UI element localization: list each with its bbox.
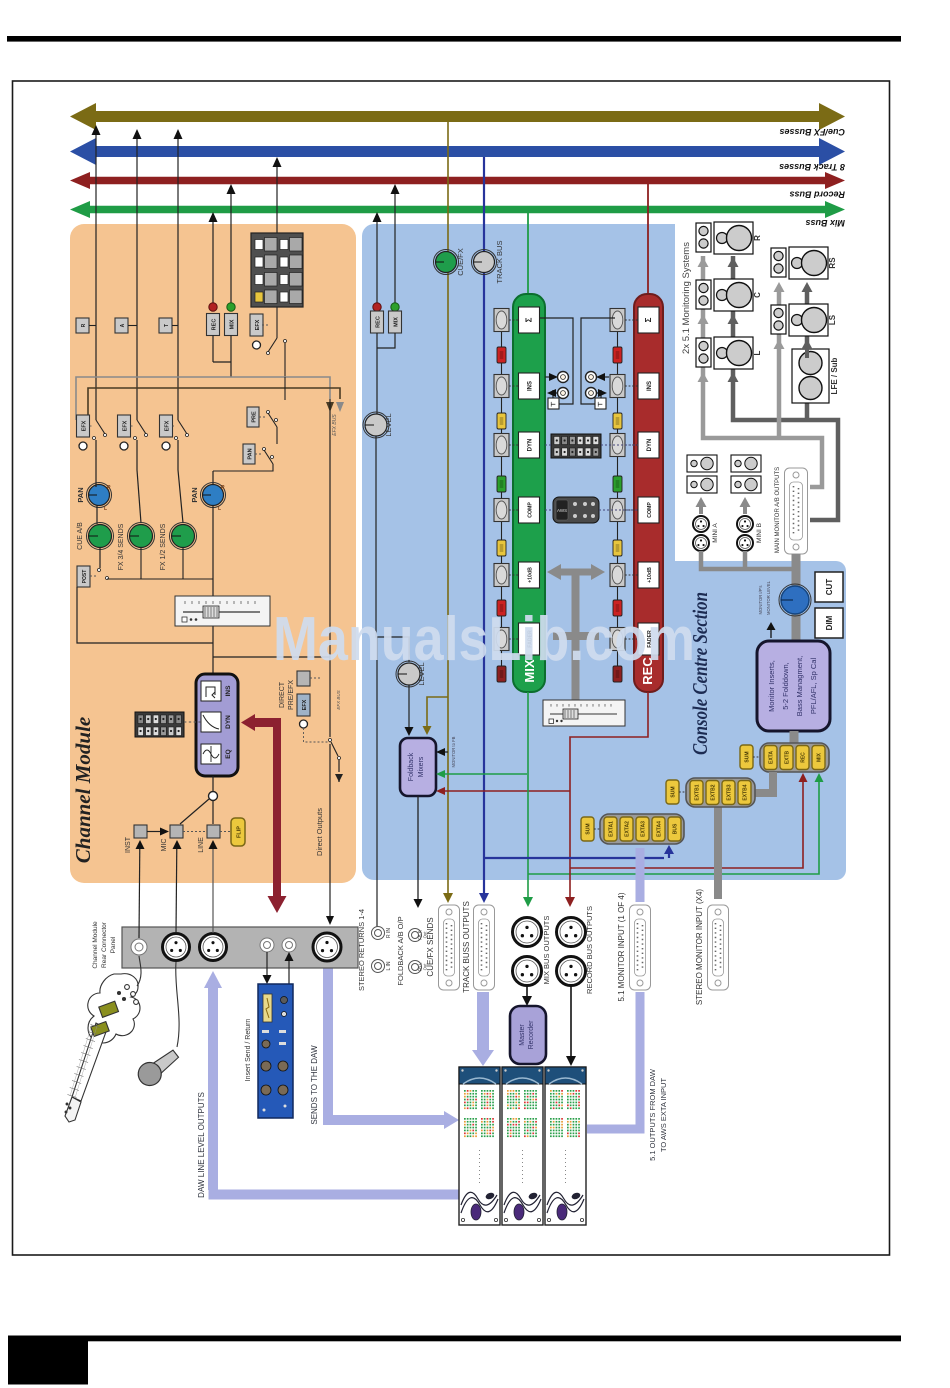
svg-text:STEREO MONITOR INPUT (X4): STEREO MONITOR INPUT (X4) — [695, 889, 704, 1005]
wire: channel output bus (pre) — [88, 388, 340, 430]
svg-text:+10dB: +10dB — [527, 567, 533, 583]
svg-text:L: L — [218, 506, 221, 512]
svg-text:INS: INS — [225, 685, 232, 697]
svg-text:CUE/FX: CUE/FX — [456, 248, 465, 276]
sends to the DAW cable — [328, 968, 448, 1120]
ext B select SUM — [666, 780, 679, 804]
Mix buss arrow — [70, 201, 845, 218]
mix to foldback green arrow — [443, 773, 527, 775]
mini speaker B boxes — [731, 455, 761, 472]
speaker L — [696, 338, 711, 367]
wire: cue send 1 tap to Cue/FX buss — [95, 135, 97, 420]
PAN knob (channel) — [201, 483, 226, 508]
speaker feed arrows col B — [777, 290, 781, 301]
svg-text:Recorder: Recorder — [528, 1020, 535, 1049]
svg-text:EXTB: EXTB — [785, 750, 791, 764]
wire: track routing matrix to 8 Track buss — [276, 167, 278, 233]
svg-text:DAW LINE LEVEL OUTPUTS: DAW LINE LEVEL OUTPUTS — [197, 1092, 206, 1198]
svg-text:A: A — [120, 323, 126, 327]
svg-text:COMP: COMP — [527, 502, 533, 518]
svg-text:DIRECT: DIRECT — [279, 681, 286, 708]
mini B feed arrow — [743, 505, 747, 514]
monitor source select group — [760, 743, 829, 772]
svg-text:PFL/AFL, Sp Cal: PFL/AFL, Sp Cal — [809, 658, 818, 715]
MIX buss strip — [527, 213, 529, 296]
wire: returns level chain — [377, 333, 395, 414]
svg-text:MONITOR LEVEL: MONITOR LEVEL — [766, 580, 771, 615]
svg-text:EXTB2: EXTB2 — [711, 784, 717, 800]
svg-text:PRE: PRE — [251, 411, 257, 423]
wire: cue chain — [95, 470, 97, 487]
mini A feed arrow — [699, 505, 703, 514]
record bus output XLR pair — [557, 918, 586, 947]
REC buss strip — [647, 184, 649, 296]
CUE/FX level knob — [434, 250, 459, 275]
8 Track busses arrow — [70, 138, 845, 165]
mix insert loop — [539, 318, 573, 404]
svg-text:DYN: DYN — [527, 439, 533, 452]
wire: surround speaker feed A — [777, 290, 782, 438]
svg-text:COMP: COMP — [647, 502, 653, 518]
wire: olive branch to foldback — [427, 697, 448, 727]
insert path red arrow — [241, 714, 287, 913]
svg-text:R: R — [753, 235, 762, 241]
wire: cue send 3 tap to Cue/FX buss — [177, 139, 179, 420]
svg-text:CUE A/B: CUE A/B — [77, 522, 84, 550]
monitor cross feed arrows — [547, 564, 605, 580]
svg-text:TRACK BUS: TRACK BUS — [495, 241, 504, 284]
svg-text:MONITOR I/P's: MONITOR I/P's — [758, 586, 763, 615]
wire: track buss to DB25 and BUS select — [484, 852, 669, 898]
speaker feed arrows col A — [701, 265, 705, 276]
svg-text:5.1 OUTPUTS FROM DAW: 5.1 OUTPUTS FROM DAW — [648, 1068, 657, 1161]
EQ DYN INS module U1 — [196, 674, 238, 776]
EFX send switch 2 — [118, 415, 131, 437]
ext A select group — [600, 814, 684, 844]
DAW interface units — [459, 1067, 500, 1225]
svg-text:DYN: DYN — [647, 439, 653, 452]
efx bus down arrows — [326, 402, 334, 412]
EFX send switch 1 — [77, 415, 90, 437]
wire: monitor speaker feed A (gray) — [703, 256, 822, 487]
mini speaker A boxes — [687, 455, 717, 472]
svg-text:R: R — [221, 485, 225, 491]
mini B XLR pair — [737, 516, 753, 532]
console centre panel — [362, 224, 846, 880]
option switch box 2 — [115, 318, 128, 333]
svg-text:+10dB: +10dB — [647, 567, 653, 583]
svg-text:PRE/EFX: PRE/EFX — [288, 680, 295, 710]
insert return jack — [282, 938, 296, 952]
svg-text:MIC: MIC — [161, 839, 168, 852]
PAN bypass switch — [243, 444, 255, 464]
ext B select group — [686, 778, 755, 807]
mic XLR — [163, 934, 190, 961]
svg-text:8 Track Busses: 8 Track Busses — [779, 162, 845, 172]
svg-text:RS: RS — [828, 257, 837, 269]
svg-text:Rear Connector: Rear Connector — [101, 921, 108, 968]
svg-text:REC: REC — [211, 319, 217, 331]
track buss outputs to DAW cable — [477, 992, 489, 1052]
svg-text:PAN: PAN — [76, 487, 85, 502]
svg-text:REC: REC — [375, 316, 381, 328]
wire: monitor select trunk — [790, 731, 799, 743]
speaker R — [696, 223, 711, 252]
speaker LFE/Sub — [792, 349, 829, 403]
speaker C — [696, 280, 711, 309]
rec insert loop — [581, 318, 615, 404]
svg-text:EFX: EFX — [81, 420, 87, 431]
svg-text:L IN: L IN — [386, 961, 392, 970]
svg-text:T: T — [164, 324, 170, 327]
ext A select SUM — [581, 817, 594, 841]
EFX direct switch — [297, 694, 310, 716]
wire: returns to foldback branch — [376, 436, 409, 662]
EFX switch box — [250, 314, 263, 336]
5.1 outputs from DAW cable — [587, 848, 640, 1129]
wire: channel output bus (post) — [76, 377, 330, 420]
DAW line level outputs cable — [209, 985, 460, 1195]
track buss outputs DB25 — [474, 905, 495, 990]
PRE switch — [247, 407, 259, 427]
wire: inputs up to INST/MIC/LINE — [138, 846, 141, 938]
wire: level to foldback — [408, 685, 410, 728]
svg-text:R: R — [81, 323, 87, 327]
PAN knob (cue) — [87, 483, 112, 508]
svg-text:L: L — [104, 506, 107, 512]
svg-text:MIX: MIX — [229, 319, 235, 329]
wire: fader feed — [77, 505, 330, 674]
CUE A/B level knob — [87, 523, 114, 550]
svg-text:Channel Module: Channel Module — [71, 717, 95, 863]
option switch box 1 — [76, 318, 89, 333]
Record buss arrow — [70, 172, 845, 189]
mic cable — [176, 962, 179, 1047]
guitar cable — [137, 956, 141, 986]
svg-text:PAN: PAN — [190, 487, 199, 502]
svg-text:SENDS TO THE DAW: SENDS TO THE DAW — [310, 1045, 319, 1125]
svg-text:Direct Outputs: Direct Outputs — [315, 808, 324, 856]
svg-text:R IN: R IN — [386, 928, 392, 938]
channel fader — [175, 596, 270, 626]
rec strip process boxes — [638, 307, 659, 333]
svg-text:MINI B: MINI B — [756, 523, 763, 543]
wire: foldback output — [417, 796, 419, 900]
master recorder — [510, 1006, 546, 1064]
bottom-left black tab — [8, 1336, 88, 1385]
svg-text:Channel Module: Channel Module — [92, 921, 99, 969]
svg-text:EFX: EFX — [122, 420, 128, 431]
monitor I/Ps arrow — [770, 628, 772, 638]
mix strip process boxes — [519, 307, 540, 333]
svg-text:PAN: PAN — [247, 448, 253, 459]
svg-text:SUM: SUM — [586, 823, 592, 834]
svg-text:LINE: LINE — [198, 837, 205, 853]
wire: record bus to DAW — [570, 986, 572, 1057]
svg-text:MAIN MONITOR A/B OUTPUTS: MAIN MONITOR A/B OUTPUTS — [775, 467, 781, 553]
wire: monitor speaker feed B (dark gray) — [733, 256, 838, 520]
EFX send switch 3 — [160, 415, 173, 437]
cue/fx sends DB25 — [439, 905, 460, 990]
svg-text:EXTA: EXTA — [769, 751, 775, 764]
svg-text:POST: POST — [82, 570, 88, 584]
monitor to FB arrow — [443, 751, 448, 753]
wire: routing to channel pan — [213, 377, 285, 471]
svg-text:FX 1/2 SENDS: FX 1/2 SENDS — [160, 523, 167, 570]
svg-text:EFX: EFX — [164, 420, 170, 431]
svg-text:LEVEL: LEVEL — [384, 413, 393, 436]
svg-text:LS: LS — [828, 314, 837, 325]
centre REC switch — [373, 303, 381, 311]
svg-text:R: R — [107, 485, 111, 491]
svg-text:Panel: Panel — [110, 936, 117, 953]
svg-text:L: L — [753, 350, 762, 355]
svg-text:EFX: EFX — [302, 699, 308, 710]
direct out XLR — [313, 933, 341, 961]
svg-text:2x 5.1 Monitoring Systems: 2x 5.1 Monitoring Systems — [681, 242, 692, 354]
LINE input box — [207, 825, 220, 838]
option switch box 3 — [159, 318, 172, 333]
switch: matrix/efx select — [276, 307, 278, 338]
Cue/FX busses arrow — [70, 103, 845, 130]
svg-text:INS: INS — [647, 381, 653, 391]
mix strip control column — [501, 320, 503, 681]
speaker RS — [771, 248, 786, 277]
svg-text:Σ: Σ — [524, 317, 533, 322]
centre fader — [543, 700, 625, 726]
FX 3/4 sends knob — [137, 470, 141, 523]
shared compressor icon — [553, 497, 599, 523]
svg-text:EXTA3: EXTA3 — [641, 821, 647, 837]
svg-text:Master: Master — [519, 1024, 526, 1046]
svg-text:SUM: SUM — [671, 786, 677, 797]
rec strip control column — [617, 320, 619, 681]
REC routing switch — [209, 303, 217, 311]
svg-text:Mix Buss: Mix Buss — [805, 218, 845, 228]
svg-text:DIM: DIM — [825, 615, 834, 630]
INST input box — [134, 825, 147, 838]
wire: main monitor trunk — [792, 554, 801, 641]
svg-text:EXTB4: EXTB4 — [743, 784, 749, 800]
svg-text:MIX: MIX — [817, 752, 823, 762]
svg-text:EFX BUS: EFX BUS — [336, 690, 341, 709]
inst to mic arrow — [147, 831, 161, 833]
speaker LS — [771, 305, 786, 334]
wire: cue send 2 tap to Cue/FX buss — [136, 139, 138, 420]
wire: select trunk down — [718, 772, 773, 899]
channel module panel — [70, 224, 356, 883]
svg-text:Σ: Σ — [644, 317, 653, 322]
svg-text:C: C — [753, 292, 762, 298]
svg-text:AWS: AWS — [557, 508, 567, 513]
guitar — [65, 974, 140, 1122]
input node switch — [209, 792, 218, 801]
wire: MIX switch to Record buss — [230, 194, 232, 311]
wire: 8-track buss feed (navy) — [483, 157, 485, 858]
stereo monitor input DB25 — [708, 905, 729, 990]
svg-text:EXTA4: EXTA4 — [657, 821, 663, 837]
MIX routing switch — [227, 303, 235, 311]
wire: REC switch to Mix buss — [212, 222, 214, 311]
shared dynamics panel icon — [551, 434, 601, 458]
svg-text:5.1 MONITOR INPUT (1 OF 4): 5.1 MONITOR INPUT (1 OF 4) — [617, 892, 626, 1001]
centre MIX switch — [391, 303, 399, 311]
svg-text:EQ: EQ — [225, 749, 232, 758]
svg-text:TO AWS EXTA INPUT: TO AWS EXTA INPUT — [659, 1078, 668, 1152]
bottom rule — [8, 1336, 901, 1342]
svg-text:EXTB1: EXTB1 — [695, 784, 701, 800]
FX 1/2 sends knob — [178, 470, 183, 523]
svg-text:⊢: ⊢ — [598, 401, 603, 409]
svg-text:MIX BUS OUTPUTS: MIX BUS OUTPUTS — [542, 916, 551, 985]
POST switch — [77, 566, 90, 587]
svg-text:MONITOR to FB: MONITOR to FB — [451, 736, 456, 767]
svg-text:CUE/FX SENDS: CUE/FX SENDS — [426, 917, 435, 976]
monitor source select SUM — [740, 745, 753, 769]
mix bus output XLR pair — [513, 918, 542, 947]
dynamics control panel icon — [135, 712, 184, 737]
wire: rec output (dark red) — [570, 692, 803, 899]
svg-text:DYN: DYN — [225, 715, 232, 729]
channel module rear connector panel — [122, 927, 358, 968]
svg-text:EXTA1: EXTA1 — [609, 821, 615, 837]
microphone — [134, 1045, 183, 1091]
wire: mini monitors feed — [701, 551, 796, 569]
foldback output jacks — [409, 929, 422, 942]
svg-text:SUM: SUM — [745, 751, 751, 762]
wire: REC/MIX join down to output bus — [212, 336, 214, 363]
svg-text:FOLDBACK A/B O/P: FOLDBACK A/B O/P — [396, 916, 405, 985]
svg-text:EFX BUS: EFX BUS — [332, 414, 338, 436]
direct outputs switch and wire — [329, 399, 331, 737]
svg-text:Foldback: Foldback — [408, 752, 415, 781]
wire: mix to master recorder — [526, 986, 528, 998]
stereo returns jacks — [376, 926, 378, 928]
svg-text:Mixers: Mixers — [418, 756, 425, 777]
svg-text:Record Buss: Record Buss — [789, 190, 845, 200]
insert send/return rack unit — [258, 984, 293, 1118]
insert send jack — [260, 938, 274, 952]
svg-text:TRACK BUSS OUTPUTS: TRACK BUSS OUTPUTS — [462, 901, 471, 993]
line XLR — [200, 934, 227, 961]
stereo returns LEVEL knob — [363, 412, 389, 438]
svg-text:EXTA2: EXTA2 — [625, 821, 631, 837]
svg-text:Insert Send / Return: Insert Send / Return — [245, 1019, 252, 1082]
FLIP button — [231, 818, 245, 846]
svg-text:Monitor Inserts,: Monitor Inserts, — [767, 660, 776, 712]
svg-text:BUS: BUS — [673, 823, 679, 834]
TRACK BUS level knob — [472, 250, 497, 275]
wire: surround speaker feed B — [805, 290, 810, 420]
svg-text:REC: REC — [801, 752, 807, 763]
5.1 monitor input DB25 — [630, 905, 651, 990]
diagram border frame — [13, 81, 890, 1255]
wire: cue/fx buss feed (olive) — [447, 122, 449, 898]
DIM button — [815, 608, 843, 638]
main monitor A/B outputs DB25 — [785, 468, 808, 554]
svg-text:EXTB3: EXTB3 — [727, 784, 733, 800]
instrument jack — [131, 939, 147, 955]
foldback mixers box — [400, 738, 436, 796]
rec to foldback red arrow — [443, 790, 570, 792]
svg-text:MINI A: MINI A — [712, 523, 719, 543]
svg-text:FLIP: FLIP — [237, 826, 243, 838]
MIC input box — [170, 825, 183, 838]
svg-text:LFE / Sub: LFE / Sub — [830, 357, 839, 394]
svg-text:MIX: MIX — [393, 317, 399, 327]
svg-text:RECORD BUS OUTPUTS: RECORD BUS OUTPUTS — [585, 906, 594, 994]
foldback LEVEL knob — [396, 661, 422, 687]
wire: stereo returns to busses — [376, 222, 378, 311]
CUT button — [815, 572, 843, 602]
svg-text:STEREO RETURNS 1-4: STEREO RETURNS 1-4 — [357, 909, 366, 991]
svg-text:INS: INS — [527, 381, 533, 391]
svg-text:CUT: CUT — [825, 579, 834, 596]
svg-text:ManualsLib.com: ManualsLib.com — [273, 605, 695, 674]
dotted control links — [509, 319, 518, 321]
svg-text:Bass Managment,: Bass Managment, — [795, 656, 804, 716]
wire: sends collect — [107, 548, 213, 579]
svg-text:Cue/FX Busses: Cue/FX Busses — [779, 127, 845, 137]
wire: insert send/return arrows — [266, 952, 268, 977]
svg-text:EFX: EFX — [255, 319, 261, 330]
mini A XLR pair — [693, 516, 709, 532]
svg-text:INST: INST — [125, 836, 132, 853]
svg-text:FX 3/4 SENDS: FX 3/4 SENDS — [118, 523, 125, 570]
svg-text:5-2 Folddown,: 5-2 Folddown, — [781, 662, 790, 710]
monitor level knob (blue) — [779, 584, 811, 616]
wire: mix output (green) — [528, 692, 819, 899]
top rule — [7, 36, 901, 42]
svg-text:⊢: ⊢ — [551, 401, 556, 409]
monitor inserts / folddown box — [757, 641, 830, 731]
track routing matrix — [251, 233, 303, 307]
